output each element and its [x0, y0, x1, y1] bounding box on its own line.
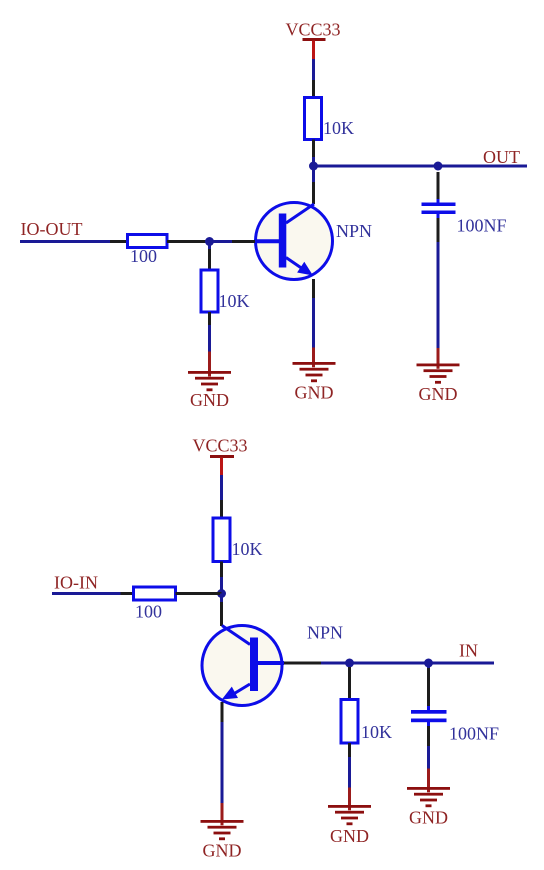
net label IO-OUT [21, 219, 83, 239]
label R6 value 10K [361, 722, 392, 742]
ground GND5 (below C2) [407, 787, 450, 807]
svg-text:GND: GND [190, 390, 229, 410]
svg-text:GND: GND [295, 383, 334, 403]
ground GND4 (below R6) [328, 805, 371, 825]
wire R6 to GND4 [348, 757, 351, 788]
resistor R4 10K (pull-up, bottom) [213, 518, 230, 562]
pin R4.1 [220, 500, 223, 518]
label R3 value 10K [219, 291, 250, 311]
node B (cap junction, OUT) [434, 162, 443, 171]
label GND1 [190, 390, 229, 410]
wire IN net [321, 662, 494, 665]
ground GND2 (below Q1) [293, 362, 336, 382]
net label OUT [483, 147, 520, 167]
power symbol VCC33 bar (top) [303, 38, 326, 41]
label C1 value 100NF [457, 216, 507, 236]
svg-text:100: 100 [135, 602, 162, 622]
wire C1 to GND3 [437, 242, 440, 348]
pin C2.2 [427, 726, 430, 746]
wire R1 to node A [312, 157, 315, 166]
svg-text:10K: 10K [323, 118, 354, 138]
svg-text:10K: 10K [232, 539, 263, 559]
net label IN [459, 641, 478, 661]
wire VCC33 stub (red) bottom [220, 458, 223, 476]
wire GND6 stub (red) [221, 803, 224, 825]
wire node D to Q2 collector [220, 594, 223, 603]
transistor Q1 NPN (top) [254, 203, 333, 280]
pin R6.1 [348, 667, 351, 700]
capacitor C1 100NF (top) [422, 199, 456, 218]
label GND3 [419, 384, 458, 404]
svg-text:100: 100 [130, 246, 157, 266]
pin R5.2 [176, 592, 222, 595]
wire IO-IN to R5 [52, 592, 121, 595]
pin R3.2 [208, 312, 211, 325]
pin R4.2 [220, 562, 223, 578]
wire node E to R6 [348, 663, 351, 667]
label GND4 [330, 826, 369, 846]
label GND2 [295, 383, 334, 403]
pin R2.2 [167, 240, 210, 243]
pin Q2 base [284, 662, 321, 665]
node D (base junction, bottom) [217, 589, 226, 598]
wire Q1 emitter to GND2 [312, 298, 315, 348]
ground GND6 (below Q2) [201, 820, 244, 840]
wire R4 to node D [220, 577, 223, 594]
svg-text:IO-OUT: IO-OUT [21, 219, 83, 239]
wire OUT net [314, 165, 528, 168]
wire VCC33 to R4 [220, 475, 223, 500]
pin R3.1 [208, 249, 211, 270]
svg-text:OUT: OUT [483, 147, 520, 167]
transistor Q2 NPN (bottom, mirrored) [202, 626, 284, 706]
capacitor C2 100NF (bottom) [411, 706, 447, 726]
wire GND1 stub (red) [208, 352, 211, 377]
svg-text:IN: IN [459, 641, 478, 661]
pin R6.2 [348, 743, 351, 757]
wire VCC33 stub (red) top [312, 41, 315, 60]
wire Q2 emitter to GND6 [221, 722, 224, 803]
svg-text:NPN: NPN [307, 623, 343, 643]
pin C1.1 [437, 172, 440, 199]
pin Q1 emitter [312, 279, 315, 298]
wire node C to R3 [208, 242, 211, 250]
pin R5.1 [121, 592, 134, 595]
resistor R5 100 (series, bottom) [134, 587, 176, 600]
net label IO-IN [54, 573, 98, 593]
pin C2.1 [427, 668, 430, 706]
label R5 value 100 [135, 602, 162, 622]
svg-text:GND: GND [409, 808, 448, 828]
node C (base junction) [205, 237, 214, 246]
wire GND5 stub (red) [427, 769, 430, 793]
wire GND2 stub (red) [312, 348, 315, 368]
label C2 value 100NF [449, 724, 499, 744]
resistor R3 10K (base pulldown, top) [201, 270, 218, 312]
resistor R1 10K (pull-up, top) [305, 98, 322, 140]
net label VCC33 (top) [285, 20, 340, 40]
resistor R2 100 (series, top) [128, 235, 168, 248]
wire GND3 stub (red) [437, 348, 440, 369]
label R1 value 10K [323, 118, 354, 138]
wire node F to C2 [427, 663, 430, 668]
svg-text:GND: GND [330, 826, 369, 846]
label GND6 [203, 841, 242, 861]
ground GND3 (below C1) [417, 364, 460, 384]
pin C1.2 [437, 218, 440, 242]
svg-text:VCC33: VCC33 [192, 436, 247, 456]
wire GND4 stub (red) [348, 788, 351, 811]
node A (collector junction) [309, 162, 318, 171]
pin R1.2 [312, 140, 315, 158]
svg-text:NPN: NPN [336, 221, 372, 241]
wire node C to Q1 base [210, 240, 233, 243]
pin Q1 base [232, 240, 255, 243]
wire C2 to GND5 [427, 746, 430, 769]
label Q2 type NPN [307, 623, 343, 643]
resistor R6 10K (pulldown, bottom) [341, 700, 358, 744]
label R2 value 100 [130, 246, 157, 266]
svg-text:10K: 10K [219, 291, 250, 311]
ground GND1 (below R3) [188, 371, 231, 391]
label GND5 [409, 808, 448, 828]
wire VCC33 to R1 [312, 59, 315, 80]
pin R2.1 [110, 240, 128, 243]
pin Q1 collector [312, 182, 315, 204]
pin Q2 emitter [221, 702, 224, 722]
wire R3 to GND1 [208, 325, 211, 352]
wire IO-OUT to R2 [20, 240, 110, 243]
svg-text:GND: GND [203, 841, 242, 861]
pin R1.1 [312, 80, 315, 98]
net label VCC33 (bottom) [192, 436, 247, 456]
power symbol VCC33 bar (bottom) [210, 455, 234, 458]
node E (R6 junction) [345, 659, 354, 668]
svg-text:100NF: 100NF [457, 216, 507, 236]
label R4 value 10K [232, 539, 263, 559]
pin Q2 collector [220, 602, 223, 626]
label Q1 type NPN [336, 221, 372, 241]
node F (C2 junction) [424, 659, 433, 668]
svg-text:IO-IN: IO-IN [54, 573, 98, 593]
svg-text:GND: GND [419, 384, 458, 404]
svg-text:10K: 10K [361, 722, 392, 742]
svg-text:100NF: 100NF [449, 724, 499, 744]
svg-text:VCC33: VCC33 [285, 20, 340, 40]
wire node A to Q1 collector [312, 166, 315, 182]
